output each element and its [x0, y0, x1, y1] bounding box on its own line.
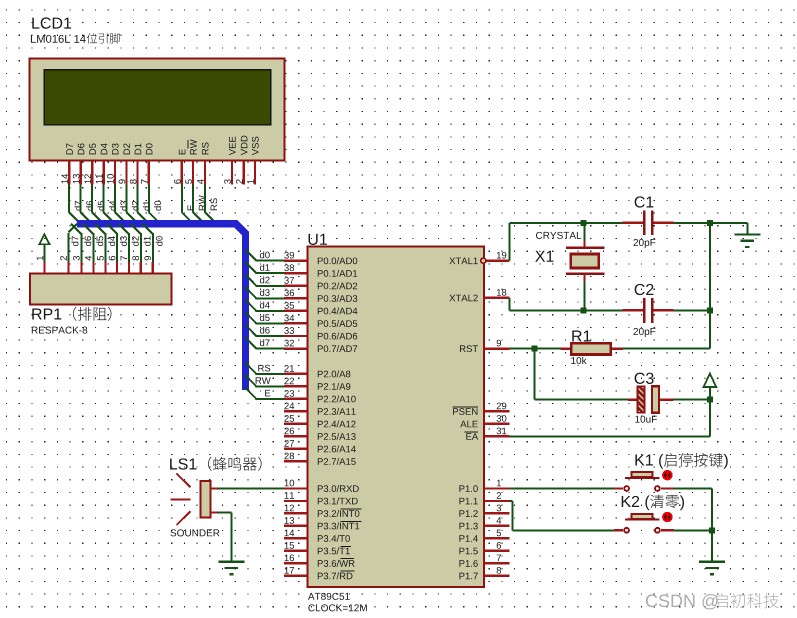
LCD pin 14 (D7)	[68, 161, 70, 185]
U1 pin 12 P3.2/INT0	[284, 512, 308, 514]
U1 pin 10 P3.0/RXD	[284, 487, 308, 489]
wire bus to RP1 pin 3 (d6)	[71, 224, 81, 234]
wire LCD D3 to bus	[114, 185, 116, 213]
wire LCD D1 to bus	[137, 185, 139, 213]
U1 pin 11 P3.1/TXD	[284, 500, 308, 502]
wire LCD E to bus	[181, 185, 183, 213]
wire bus to RP1 pin 7 (d2)	[119, 224, 129, 234]
LCD pin 11 (D4)	[103, 161, 105, 185]
LCD pin 6 (E)	[181, 161, 183, 185]
wire bus to U1 P0.0 (d0)	[245, 249, 256, 260]
power arrow (C3)	[704, 374, 717, 400]
wire LCD D2 to bus	[125, 185, 127, 213]
wire LCD D0 to bus	[148, 185, 150, 213]
wire bus to U1 (E)	[245, 388, 256, 399]
LCD pin 9 (D2)	[125, 161, 127, 185]
U1 pin 14 P3.4/T0	[284, 537, 308, 539]
wire LCD D5 to bus	[91, 185, 93, 213]
U1 pin 37 P0.2/AD2	[284, 285, 308, 287]
capacitor C2 20pF	[623, 284, 674, 337]
U1 pin 5 P1.4	[484, 537, 510, 539]
LCD pin 1 (VSS)	[254, 161, 256, 185]
wire P1.0 to K1	[510, 487, 623, 489]
LCD pin 10 (D3)	[114, 161, 116, 185]
wire bus to U1 (RW)	[245, 375, 256, 386]
LCD pin 13 (D6)	[80, 161, 82, 185]
wire C3 to EA	[510, 397, 713, 438]
wire XTAL2 net	[509, 298, 713, 314]
U1 pin 2 P1.1	[484, 500, 510, 502]
LCD pin 8 (D1)	[137, 161, 139, 185]
U1 pin 31 EA	[484, 435, 510, 437]
wire R1 right	[623, 348, 710, 350]
wire bus to U1 P0.2 (d2)	[245, 275, 256, 286]
wire bus to RP1 pin 4 (d5)	[83, 224, 93, 234]
U1 pin 21 P2.0/A8	[284, 373, 308, 375]
U1 pin 15 P3.5/T1	[284, 550, 308, 552]
wire LS1 to ground	[211, 512, 218, 514]
wire bus to U1 P0.6 (d6)	[245, 325, 256, 336]
U1 pin 17 P3.7/RD	[284, 575, 308, 577]
wire LS1 to U1 P3.0	[211, 487, 218, 489]
U1 pin 13 P3.3/INT1	[284, 525, 308, 527]
U1 pin 39 P0.0/AD0	[284, 260, 308, 262]
U1 pin 36 P0.3/AD3	[284, 297, 308, 299]
LCD pin 7 (D0)	[148, 161, 150, 185]
U1 pin 24 P2.3/A11	[284, 410, 308, 412]
capacitor C1 20pF	[623, 196, 674, 248]
wire bus to RP1 pin 2 (d7)	[69, 224, 77, 233]
U1 pin 28 P2.7/A15	[284, 460, 308, 462]
U1 pin 9 RST	[484, 347, 510, 349]
U1 pin 35 P0.4/AD4	[284, 310, 308, 312]
capacitor C3 10uF	[628, 373, 673, 423]
wire bus to RP1 pin 5 (d4)	[95, 224, 105, 234]
wire XTAL1 net	[509, 220, 748, 261]
wire LCD D4 to bus	[103, 185, 105, 213]
wire LCD RS to bus	[204, 185, 206, 213]
resistor pack RP1	[30, 274, 171, 334]
button K1	[635, 453, 727, 469]
sounder LS1	[170, 457, 261, 537]
wire bus to U1 (RS)	[245, 363, 256, 374]
U1 pin 3 P1.2	[484, 512, 510, 514]
wire LCD D6 to bus	[80, 185, 82, 213]
wire bus to U1 P0.7 (d7)	[245, 337, 256, 348]
wire LCD D7 to bus	[68, 185, 70, 213]
crystal X1	[535, 223, 605, 311]
wire bus to RP1 pin 9 (d0)	[143, 224, 153, 234]
U1 pin 27 P2.6/A14	[284, 448, 308, 450]
LCD LCD1	[30, 17, 285, 184]
ground (buttons)	[699, 530, 725, 575]
watermark CSDN	[646, 593, 779, 609]
wire K2 to ground junction	[661, 527, 715, 533]
wire bus to U1 P0.4 (d4)	[245, 300, 256, 311]
wire bus to U1 P0.1 (d1)	[245, 262, 256, 273]
U1 pin 7 P1.6	[484, 562, 510, 564]
U1 pin 16 P3.6/WR	[284, 562, 308, 564]
U1 pin 1 P1.0	[484, 487, 510, 489]
U1 pin 33 P0.6/AD6	[284, 335, 308, 337]
U1 pin 8 P1.7	[484, 575, 510, 577]
U1 pin 6 P1.5	[484, 550, 510, 552]
U1 pin 25 P2.4/A12	[284, 423, 308, 425]
U1 pin 23 P2.2/A10	[284, 398, 308, 400]
LCD pin 3 (VEE)	[231, 161, 233, 185]
U1 pin 26 P2.5/A13	[284, 435, 308, 437]
LCD pin 4 (RS)	[204, 161, 206, 185]
microcontroller U1 AT89C51	[308, 234, 485, 612]
wire right vertical (C1/C2 to R1)	[709, 223, 711, 349]
ground (top right)	[746, 223, 748, 235]
U1 pin 4 P1.3	[484, 525, 510, 527]
wire bus to RP1 pin 8 (d1)	[131, 224, 141, 234]
U1 pin 19 XTAL1	[484, 260, 510, 262]
wire RST to C3	[534, 349, 629, 401]
XTAL1 pin circle	[481, 258, 486, 263]
LCD pin 12 (D5)	[91, 161, 93, 185]
U1 pin 38 P0.1/AD1	[284, 272, 308, 274]
wire bus to RP1 pin 6 (d3)	[107, 224, 117, 234]
wire bus to U1 P0.5 (d5)	[245, 312, 256, 323]
U1 pin 32 P0.7/AD7	[284, 347, 308, 349]
wire bus to U1 P0.3 (d3)	[245, 287, 256, 298]
U1 pin 29 PSEN	[484, 410, 510, 412]
LCD pin 5 (RW)	[192, 161, 194, 185]
wire K1 to ground	[661, 487, 713, 530]
bus (blue)	[77, 220, 249, 390]
wire P1.1 to K2	[510, 500, 623, 531]
U1 pin 34 P0.5/AD5	[284, 322, 308, 324]
U1 pin 30 ALE	[484, 423, 510, 425]
wire LCD RW to bus	[192, 185, 194, 213]
ground (sounder)	[219, 561, 245, 563]
wire RST net	[510, 346, 561, 352]
LCD pin 2 (VDD)	[243, 161, 245, 185]
button K2	[622, 494, 684, 510]
U1 pin 22 P2.1/A9	[284, 385, 308, 387]
resistor R1 10k	[561, 330, 624, 364]
power arrow at RP1 pin 1	[37, 234, 50, 273]
U1 pin 18 XTAL2	[484, 297, 510, 299]
